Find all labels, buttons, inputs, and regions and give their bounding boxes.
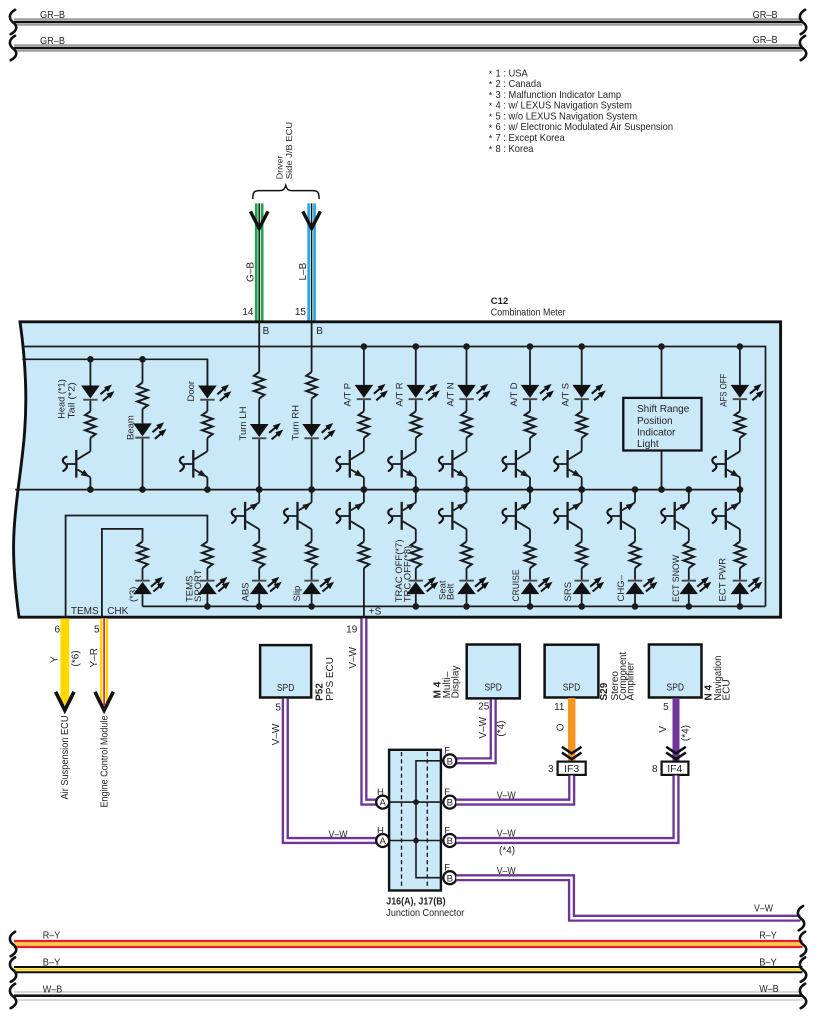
wire W-B bus <box>14 992 803 1001</box>
node internal junction upper <box>413 799 419 805</box>
svg-text:Turn LH: Turn LH <box>238 406 249 440</box>
node internal junction lower <box>413 838 419 844</box>
svg-text:Side J/B ECU: Side J/B ECU <box>284 122 294 179</box>
svg-text:*: * <box>489 90 493 100</box>
svg-text:SPD: SPD <box>484 683 502 694</box>
component N4 Navigation ECU box <box>649 645 702 698</box>
node junction A/T D on top bus <box>527 343 534 350</box>
wire V-W from M4 pin 25 to junction connector B <box>456 700 493 761</box>
svg-text:GR–B: GR–B <box>753 35 778 46</box>
svg-text:F: F <box>444 825 450 836</box>
svg-text:V–W: V–W <box>348 646 359 668</box>
wire bottom bus <box>143 605 766 607</box>
wire V-W from junction B row2 to IF3 <box>456 776 571 803</box>
node Turn LH to mid bus <box>256 486 263 493</box>
arrow destination marker on Y-R wire <box>95 692 113 711</box>
svg-text:W–B: W–B <box>43 985 63 996</box>
svg-text:B: B <box>263 326 270 337</box>
wire Y to Air Suspension ECU <box>60 618 69 705</box>
svg-text:19: 19 <box>346 625 358 636</box>
svg-text:Head (*1): Head (*1) <box>57 379 67 419</box>
wire TEMS riser from pin 6 <box>66 516 208 618</box>
wire V-W from P52 to junction connector A <box>285 699 376 841</box>
connector IF3 box <box>558 762 586 775</box>
node Slip at mid bus <box>308 486 315 493</box>
transistor + resistor + lamp CHG- branch <box>634 490 636 503</box>
break symbol B-Y right <box>800 957 806 981</box>
svg-text:V–W: V–W <box>754 904 773 915</box>
transistor + resistor + lamp Seat Belt branch <box>466 490 468 503</box>
break symbol GR-B upper left <box>10 10 16 34</box>
node junction AFS OFF on top bus <box>737 343 744 350</box>
node TRAC OFF to bottom bus <box>413 603 420 610</box>
wire GR-B bus upper <box>14 18 803 25</box>
svg-text:4 : w/ LEXUS Navigation System: 4 : w/ LEXUS Navigation System <box>496 101 632 112</box>
node shift-range riser to mid bus <box>658 486 665 493</box>
svg-text:+S: +S <box>369 607 382 618</box>
transistor + resistor + lamp ABS branch <box>258 490 260 503</box>
wire V-W from junction B row4 to right continuation <box>456 878 800 919</box>
component S29 Stereo Component Amplifier box <box>545 645 599 698</box>
node Head/Tail emitter to mid bus <box>87 486 94 493</box>
svg-text:B: B <box>316 326 323 337</box>
svg-text:V–W: V–W <box>329 829 348 840</box>
node Slip to bottom bus <box>308 603 315 610</box>
node junction A/T N on top bus <box>463 343 470 350</box>
wire G-B from J/B to pin 14 <box>255 203 264 321</box>
svg-text:GR–B: GR–B <box>40 36 65 47</box>
svg-text:6 : w/ Electronic Modulated Ai: 6 : w/ Electronic Modulated Air Suspensi… <box>496 122 674 133</box>
svg-text:Combination Meter: Combination Meter <box>491 307 566 318</box>
transistor + resistor + lamp TRAC OFF branch <box>415 490 417 503</box>
svg-text:8 : Korea: 8 : Korea <box>496 144 534 155</box>
svg-text:F: F <box>444 746 450 757</box>
svg-text:Light: Light <box>637 439 659 450</box>
svg-text:(*4): (*4) <box>499 846 515 857</box>
node AFS OFF to mid bus <box>737 486 744 493</box>
svg-text:V–W: V–W <box>497 829 516 840</box>
node Beam to mid bus <box>139 486 146 493</box>
break symbol GR-B upper right <box>800 10 806 34</box>
wire internal row A-B upper <box>389 801 443 803</box>
svg-text:ECT PWR: ECT PWR <box>718 558 729 602</box>
brace for Driver Side J/B ECU <box>253 185 319 199</box>
arrow source marker on G-B wire <box>250 211 268 228</box>
svg-text:(*6): (*6) <box>70 650 81 666</box>
svg-text:R–Y: R–Y <box>759 930 777 941</box>
svg-text:Slip: Slip <box>292 586 303 602</box>
wire B-Y bus <box>14 966 803 973</box>
svg-text:TEMS: TEMS <box>71 606 99 617</box>
node ECT SNOW to bottom bus <box>686 603 693 610</box>
svg-text:*: * <box>489 112 493 122</box>
svg-text:F: F <box>444 863 450 874</box>
svg-text:5: 5 <box>94 625 100 636</box>
terminal B row3 with label F <box>443 834 456 847</box>
node junction A/T P on top bus <box>361 343 368 350</box>
dashed internal separator left <box>401 752 403 889</box>
svg-text:B: B <box>447 798 453 809</box>
svg-text:15: 15 <box>295 307 307 318</box>
svg-text:S29: S29 <box>599 682 610 700</box>
node junction A/T S on top bus <box>578 343 585 350</box>
svg-text:Position: Position <box>637 416 673 427</box>
transistor +S branch with resistor to pin 19 <box>363 490 365 503</box>
component Shift Range Position Indicator Light box <box>623 398 701 451</box>
svg-text:SRS: SRS <box>563 582 574 602</box>
lamp A/T P branch: LED, resistor, transistor <box>363 347 365 385</box>
svg-text:Junction Connector: Junction Connector <box>386 908 465 919</box>
component J16(A) J17(B) junction connector box <box>389 750 441 891</box>
svg-text:SPD: SPD <box>667 683 685 694</box>
node CHG- at mid bus <box>632 486 639 493</box>
svg-text:11: 11 <box>554 702 565 713</box>
svg-text:Beam: Beam <box>126 415 137 440</box>
svg-text:O: O <box>555 723 566 731</box>
node SRS to bottom bus <box>578 603 585 610</box>
svg-text:Indicator: Indicator <box>637 427 676 438</box>
svg-text:(*4): (*4) <box>681 725 692 741</box>
svg-text:V–W: V–W <box>497 866 516 877</box>
svg-text:5 : w/o LEXUS Navigation Syste: 5 : w/o LEXUS Navigation System <box>496 111 638 122</box>
lamp A/T N branch: LED, resistor, transistor <box>466 347 468 385</box>
break symbol R-Y left <box>10 932 16 956</box>
node junction shift-range riser on top bus <box>658 343 665 350</box>
lamp A/T D branch: LED, resistor, transistor <box>529 347 531 385</box>
wire GR-B bus lower <box>14 44 803 51</box>
wire top illumination bus <box>22 347 766 607</box>
svg-text:B: B <box>447 873 453 884</box>
svg-text:(*3): (*3) <box>128 587 139 602</box>
svg-text:B: B <box>447 756 453 767</box>
svg-text:G–B: G–B <box>245 262 256 282</box>
svg-text:CHK: CHK <box>107 606 128 617</box>
svg-text:B: B <box>447 836 453 847</box>
transistor + resistor + lamp Slip branch <box>311 490 313 503</box>
svg-text:ECT SNOW: ECT SNOW <box>671 555 682 602</box>
node ABS at mid bus <box>256 486 263 493</box>
svg-text:3 : Malfunction Indicator Lamp: 3 : Malfunction Indicator Lamp <box>496 90 622 101</box>
svg-text:H: H <box>377 787 384 798</box>
svg-text:Shift Range: Shift Range <box>637 404 690 415</box>
wire shift range box riser upper <box>661 347 663 398</box>
lamp Turn LH branch: resistor, LED from pin 14 <box>254 372 265 399</box>
svg-text:A/T S: A/T S <box>561 383 572 407</box>
svg-text:2 : Canada: 2 : Canada <box>496 79 542 90</box>
lamp Turn RH branch: resistor, LED from pin 15 <box>306 372 317 399</box>
svg-text:*: * <box>489 101 493 111</box>
svg-text:A/T P: A/T P <box>343 383 354 407</box>
node junction Beam on sub bus <box>139 356 146 363</box>
node CRUISE to bottom bus <box>527 603 534 610</box>
svg-text:B–Y: B–Y <box>759 957 777 968</box>
svg-text:*: * <box>489 123 493 133</box>
terminal B row1 with label F <box>443 754 456 767</box>
svg-text:GR–B: GR–B <box>40 10 65 21</box>
svg-text:6: 6 <box>54 625 60 636</box>
svg-text:V–W: V–W <box>497 790 516 801</box>
wire R-Y bus <box>14 940 803 948</box>
svg-text:*: * <box>489 134 493 144</box>
component P52 PPS ECU box <box>260 645 311 697</box>
arrow chevrons into IF3 <box>562 747 582 754</box>
svg-text:Air Suspension ECU: Air Suspension ECU <box>60 716 71 800</box>
svg-text:V–W: V–W <box>271 723 282 745</box>
break symbol GR-B lower right <box>800 36 806 60</box>
svg-text:Y: Y <box>50 656 61 663</box>
svg-text:*: * <box>489 144 493 154</box>
node TRAC OFF at mid bus <box>413 486 420 493</box>
svg-text:ABS: ABS <box>241 582 252 601</box>
node Seat Belt to bottom bus <box>463 603 470 610</box>
svg-text:W–B: W–B <box>759 984 779 995</box>
svg-text:IF3: IF3 <box>564 764 579 775</box>
node junction Head/Tail on sub bus <box>87 356 94 363</box>
wire mid bus <box>15 489 740 491</box>
svg-text:V: V <box>658 726 669 733</box>
lamp AFS OFF branch: LED, resistor, transistor <box>739 347 741 385</box>
svg-text:V–W: V–W <box>478 716 489 738</box>
node +S at mid bus <box>361 486 368 493</box>
wire V from N4 pin 5 to IF4 <box>673 698 680 761</box>
wire V-W from pin 19 to junction connector A <box>364 618 376 802</box>
svg-text:H: H <box>377 825 384 836</box>
svg-text:A/T N: A/T N <box>445 382 456 406</box>
svg-text:SPORT: SPORT <box>193 569 204 602</box>
svg-text:TRC OFF(*8): TRC OFF(*8) <box>403 546 414 602</box>
svg-text:(*4): (*4) <box>496 720 507 736</box>
lamp A/T S branch: LED, resistor, transistor <box>581 347 583 385</box>
svg-text:A: A <box>380 798 387 809</box>
node SRS at mid bus <box>578 486 585 493</box>
svg-text:F: F <box>444 787 450 798</box>
wire Y-R to Engine Control Module <box>100 618 108 705</box>
svg-text:Door: Door <box>186 381 197 402</box>
svg-text:5: 5 <box>275 702 281 713</box>
svg-text:ECU: ECU <box>722 679 733 700</box>
svg-text:PPS ECU: PPS ECU <box>325 657 336 701</box>
svg-text:Y–R: Y–R <box>89 648 100 667</box>
lamp (*3) malfunction indicator branch: resistor, LED <box>137 542 148 569</box>
break symbol R-Y right <box>800 932 806 956</box>
svg-text:14: 14 <box>242 307 254 318</box>
svg-text:1 : USA: 1 : USA <box>496 68 528 79</box>
wire shift range box riser lower <box>661 451 663 490</box>
svg-text:B–Y: B–Y <box>43 958 61 969</box>
wire internal bus of junction connector <box>416 761 443 878</box>
lamp Beam branch: resistor, LED <box>142 359 144 382</box>
svg-text:SPD: SPD <box>277 683 295 694</box>
svg-text:8: 8 <box>652 764 658 775</box>
svg-text:Display: Display <box>450 666 461 699</box>
svg-text:25: 25 <box>478 702 490 713</box>
svg-text:CRUISE: CRUISE <box>511 570 522 602</box>
lamp A/T R branch: LED, resistor, transistor <box>415 347 417 385</box>
wire pin 15 lead inside box <box>311 322 313 372</box>
svg-text:Tail (*2): Tail (*2) <box>67 382 77 419</box>
component M4 Multi-Display box <box>467 645 520 699</box>
svg-text:Driver: Driver <box>274 156 284 180</box>
svg-text:A/T R: A/T R <box>395 382 406 406</box>
node A/T D to mid bus <box>527 486 534 493</box>
svg-text:CHG–: CHG– <box>616 574 627 601</box>
node A/T P to mid bus <box>361 486 368 493</box>
svg-text:P52: P52 <box>314 683 325 701</box>
node ABS to bottom bus <box>256 603 263 610</box>
svg-text:A/T D: A/T D <box>509 382 520 406</box>
node ECT PWR to bottom bus <box>737 603 744 610</box>
svg-text:Engine Control Module: Engine Control Module <box>99 715 110 807</box>
svg-text:5: 5 <box>663 702 669 713</box>
svg-text:3: 3 <box>548 764 554 775</box>
svg-text:GR–B: GR–B <box>753 10 778 21</box>
arrow chevrons into IF4 <box>666 747 686 754</box>
break symbol W-B left <box>10 984 16 1008</box>
svg-text:L–B: L–B <box>298 262 309 280</box>
wire L-B from J/B to pin 15 <box>307 203 316 321</box>
node Door to mid bus <box>204 486 211 493</box>
node A/T S to mid bus <box>578 486 585 493</box>
svg-text:Belt: Belt <box>445 583 456 600</box>
lamp Door branch: LED, resistor, transistor Q2 <box>206 359 208 385</box>
terminal A lower with label H <box>376 834 389 847</box>
transistor + resistor + lamp ECT SNOW branch <box>688 490 690 503</box>
wire pin 14 lead inside box <box>258 322 260 372</box>
node TEMS SPORT to bottom bus <box>204 603 211 610</box>
arrow destination marker on Y wire <box>56 692 74 711</box>
break symbol W-B right <box>800 984 806 1008</box>
svg-text:C12: C12 <box>491 296 508 307</box>
node Seat Belt at mid bus <box>463 486 470 493</box>
component C12 combination meter box <box>14 322 781 617</box>
svg-text:*: * <box>489 69 493 79</box>
transistor + resistor + lamp SRS branch <box>581 490 583 503</box>
terminal A upper with label H <box>376 796 389 809</box>
node Turn RH to mid bus <box>308 486 315 493</box>
dashed internal separator right <box>426 752 428 889</box>
break symbol GR-B lower left <box>10 36 16 60</box>
lamp Head Tail branch: LED, resistor, transistor Q1 <box>89 359 91 385</box>
svg-text:J16(A), J17(B): J16(A), J17(B) <box>386 897 445 908</box>
wire V-W from junction B row3 to IF4 <box>456 776 676 841</box>
node junction A/T R on top bus <box>413 343 420 350</box>
svg-text:SPD: SPD <box>563 683 581 694</box>
node CHG- to bottom bus <box>632 603 639 610</box>
node CRUISE at mid bus <box>527 486 534 493</box>
legend notes *1-*8 <box>489 68 674 154</box>
svg-text:A: A <box>380 836 387 847</box>
node A/T N to mid bus <box>463 486 470 493</box>
svg-text:AFS OFF: AFS OFF <box>719 374 730 407</box>
connector IF4 box <box>662 762 689 775</box>
terminal B row4 with label F <box>443 871 456 884</box>
transistor + resistor + lamp ECT PWR branch <box>739 490 741 503</box>
transistor + resistor + lamp CRUISE branch <box>529 490 531 503</box>
node ECT PWR at mid bus <box>737 486 744 493</box>
terminal B row2 with label F <box>443 796 456 809</box>
wire internal row A-B lower <box>389 840 443 842</box>
break symbol B-Y left <box>10 957 16 981</box>
wire O from S29 pin 11 to IF3 <box>568 698 576 761</box>
break symbol V-W right <box>798 906 804 930</box>
svg-text:R–Y: R–Y <box>43 930 61 941</box>
wire CHK riser from pin 5 <box>102 529 143 617</box>
svg-text:*: * <box>489 80 493 90</box>
svg-text:7 : Except Korea: 7 : Except Korea <box>496 133 565 144</box>
svg-text:IF4: IF4 <box>667 764 682 775</box>
svg-text:Turn RH: Turn RH <box>291 405 302 441</box>
wire sub bus to Head Beam Door <box>22 359 207 386</box>
node A/T R to mid bus <box>413 486 420 493</box>
arrow source marker on L-B wire <box>303 211 321 228</box>
svg-text:Amplifier: Amplifier <box>626 661 637 700</box>
node ECT SNOW at mid bus <box>686 486 693 493</box>
lamp TEMS SPORT branch: resistor, LED <box>202 542 213 569</box>
